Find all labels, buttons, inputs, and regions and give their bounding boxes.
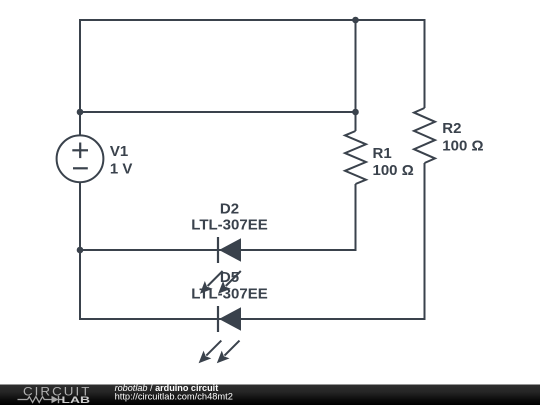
- svg-text:D5: D5: [220, 269, 239, 286]
- wire R2 top lead: [424, 19, 426, 108]
- svg-text:R1: R1: [373, 145, 392, 162]
- svg-text:http://circuitlab.com/ch48mt2: http://circuitlab.com/ch48mt2: [115, 392, 233, 402]
- svg-text:LTL-307EE: LTL-307EE: [191, 217, 267, 234]
- svg-text:D2: D2: [220, 200, 239, 217]
- wire top rail: [80, 19, 425, 21]
- wire middle rail: [80, 111, 356, 113]
- footer credit line: [115, 383, 219, 393]
- LED D2: [200, 237, 241, 294]
- svg-text:R2: R2: [442, 120, 461, 137]
- label D5 part number: [191, 269, 267, 303]
- node junction middle rail / R1: [352, 109, 359, 116]
- CircuitLab logo schematic: wire: [18, 399, 28, 401]
- svg-text:1 V: 1 V: [110, 160, 133, 177]
- wire left rail upper: [79, 19, 81, 136]
- resistor R1: [345, 131, 366, 184]
- wire D5 row: [80, 318, 425, 320]
- resistor R2: [414, 108, 435, 163]
- wire R1 branch vertical upper: [355, 20, 357, 131]
- footer URL: [115, 392, 233, 402]
- node junction top rail / R1 branch: [352, 17, 359, 24]
- svg-text:LAB: LAB: [62, 395, 91, 405]
- CircuitLab logo schematic: resistor zigzag: [28, 397, 52, 403]
- svg-text:V1: V1: [110, 143, 128, 160]
- label V1 value: [110, 143, 133, 177]
- label R1 value: [373, 145, 414, 179]
- CircuitLab logo wordmark CIRCUIT: [23, 385, 90, 398]
- wire R1 bottom lead: [355, 184, 357, 251]
- wire left rail lower: [79, 182, 81, 320]
- svg-text:LTL-307EE: LTL-307EE: [191, 286, 267, 303]
- CircuitLab logo wordmark LAB: [62, 395, 91, 405]
- wire D2 row: [80, 249, 357, 251]
- svg-text:100 Ω: 100 Ω: [442, 137, 483, 154]
- label R2 value: [442, 120, 483, 154]
- voltage source V1: [57, 135, 104, 182]
- node junction left rail / middle rail: [77, 109, 84, 116]
- label D2 part number: [191, 200, 267, 233]
- node junction left rail / D2 wire: [77, 247, 84, 254]
- wire R2 bottom lead / right rail: [424, 163, 426, 320]
- CircuitLab logo schematic: diode: [52, 396, 64, 403]
- footer bar: [0, 385, 540, 405]
- LED D5: [199, 306, 241, 363]
- svg-text:100 Ω: 100 Ω: [373, 162, 414, 179]
